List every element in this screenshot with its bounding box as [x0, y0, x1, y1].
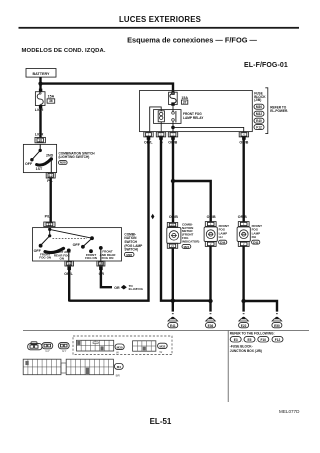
relay coil to G pin — [160, 122, 162, 132]
svg-text:15A: 15A — [48, 95, 55, 99]
svg-text:GY: GY — [62, 349, 66, 353]
svg-text:(LIGHTING SWITCH): (LIGHTING SWITCH) — [59, 155, 90, 159]
relay coil feed path — [150, 107, 162, 132]
refer-to list — [230, 332, 283, 353]
svg-text:W: W — [159, 350, 162, 354]
svg-text:L/OR: L/OR — [35, 108, 44, 112]
wire fog lamp LH ground down — [209, 246, 211, 301]
svg-text:M28: M28 — [60, 161, 66, 165]
connector ref ovals fuse block — [254, 104, 264, 109]
node ground junction 2 — [208, 299, 212, 303]
svg-text:OR/B: OR/B — [207, 215, 216, 219]
direction arrow on OR/L wire — [151, 214, 154, 219]
connector E41 face view — [28, 342, 42, 350]
svg-text:INDICATOR): INDICATOR) — [182, 239, 199, 243]
svg-text:14: 14 — [67, 262, 71, 266]
svg-text:FOG ON: FOG ON — [39, 256, 51, 260]
svg-text:12: 12 — [49, 174, 53, 178]
svg-text:E44: E44 — [220, 240, 226, 244]
svg-text:L/OR: L/OR — [35, 132, 44, 136]
wire battery down — [39, 77, 41, 90]
wire OR/B right down — [242, 138, 244, 222]
svg-text:GY: GY — [45, 349, 49, 353]
connector ref M28 oval — [59, 161, 68, 165]
wire battery feed to fuse block — [41, 84, 174, 93]
fuse F1 ref box — [47, 99, 55, 103]
svg-text:M30: M30 — [117, 345, 123, 349]
connector 10 lighting switch top — [35, 137, 45, 142]
svg-text:OFF: OFF — [73, 243, 81, 247]
svg-text:FOG ON: FOG ON — [102, 256, 114, 260]
connector ref E44 oval — [219, 240, 227, 244]
svg-text:OR/B: OR/B — [169, 215, 178, 219]
arrow to EL-R/FOG — [121, 285, 127, 290]
svg-text:1ST: 1ST — [36, 167, 43, 171]
svg-text:10: 10 — [38, 139, 42, 143]
node relay output junction — [171, 126, 175, 130]
battery B1 — [26, 69, 56, 78]
wire OR/L down — [68, 268, 70, 302]
lighting switch contact arc — [37, 160, 51, 166]
connector 12 lighting switch bottom — [46, 173, 55, 178]
svg-text:EL-POWER.: EL-POWER. — [270, 109, 288, 113]
node contact front fog on — [89, 249, 93, 253]
svg-text:OR: OR — [114, 286, 120, 290]
svg-text:,: , — [270, 339, 271, 343]
node OR/B branch — [171, 179, 175, 183]
svg-text:36: 36 — [49, 99, 53, 103]
ground stub 3 — [242, 301, 244, 312]
bracket refer to el-power — [265, 88, 268, 134]
svg-text:M30: M30 — [256, 105, 262, 109]
ground symbol E41 — [168, 313, 178, 328]
svg-text:E41: E41 — [170, 324, 176, 328]
connector M4 long grid face view row2 — [23, 359, 123, 377]
svg-text:37: 37 — [183, 100, 187, 104]
wire OR/B down — [172, 138, 174, 223]
ground symbol E22 — [239, 313, 249, 328]
svg-text:M32: M32 — [256, 112, 262, 116]
fuse F2 15A — [171, 91, 174, 94]
feed line to right pivot — [50, 229, 92, 238]
connector M32 grid face view — [133, 341, 168, 354]
connector ref M24 oval — [182, 244, 191, 248]
node ground junction 1 — [171, 299, 175, 303]
bottom separator line — [23, 329, 309, 331]
svg-text:(J/B): (J/B) — [254, 98, 261, 102]
wire meter ground down — [172, 248, 174, 300]
svg-text:E50: E50 — [274, 324, 280, 328]
svg-text:MODELOS DE COND. IZQDA.: MODELOS DE COND. IZQDA. — [22, 48, 106, 54]
fog switch contact arc 1 — [45, 248, 64, 252]
svg-text:LH: LH — [219, 235, 223, 239]
svg-text:F12: F12 — [256, 126, 262, 130]
pin OR/B right fuse block — [239, 132, 248, 137]
combination meter U1 (front fog indicator) — [167, 228, 181, 244]
wiper arm 1 — [41, 236, 50, 246]
relay contact terminals — [172, 110, 174, 112]
section divider vertical — [227, 331, 229, 402]
svg-text:OR/B: OR/B — [238, 215, 247, 219]
svg-text:E36: E36 — [208, 324, 214, 328]
svg-text:ON: ON — [60, 257, 65, 261]
node arc output — [67, 249, 71, 253]
wire OR/L riser — [69, 138, 148, 301]
svg-text:SWITCH): SWITCH) — [124, 248, 138, 252]
svg-text:M32: M32 — [159, 345, 165, 349]
svg-text:E3: E3 — [234, 338, 238, 342]
lighting switch SW1 box — [23, 144, 56, 172]
ground stub 1 — [172, 301, 174, 312]
svg-text:-FUSE BLOCK-: -FUSE BLOCK- — [230, 344, 253, 348]
node battery junction — [38, 82, 42, 86]
node pivot 2 — [90, 236, 94, 240]
svg-text:JUNCTION BOX (J/B): JUNCTION BOX (J/B) — [230, 349, 262, 353]
fuse F2 ref box — [181, 100, 187, 104]
ground symbol E36 — [206, 313, 216, 328]
connector 1 fog lamp LH top — [205, 222, 216, 227]
wire L/OR down — [39, 107, 41, 139]
svg-text:LAMP RELAY: LAMP RELAY — [183, 116, 204, 120]
front fog lamp RH E2 — [237, 227, 250, 241]
svg-text:E5: E5 — [248, 338, 252, 342]
node fog switch input — [48, 228, 51, 231]
svg-text:EL-R/FOG: EL-R/FOG — [129, 287, 144, 291]
svg-text:EL-F/FOG-01: EL-F/FOG-01 — [244, 62, 288, 69]
header rule — [19, 27, 300, 29]
svg-text:FOG ON: FOG ON — [85, 256, 97, 260]
svg-text:RH: RH — [252, 235, 256, 239]
svg-text:F10: F10 — [261, 338, 267, 342]
node ground junction 3 — [241, 299, 245, 303]
wire fuse to relay contact — [172, 105, 174, 112]
ground stub 2 — [209, 301, 211, 312]
svg-text:MEL077D: MEL077D — [279, 409, 300, 414]
svg-text:E40: E40 — [256, 119, 262, 123]
connector 2 fog lamp LH bottom — [205, 241, 216, 246]
connector ref E45 oval — [252, 240, 260, 244]
wire P/L down — [50, 178, 52, 222]
dashed fuse block group box — [73, 336, 172, 355]
fuse block J/B outline — [140, 91, 253, 132]
connector ref M28 oval — [124, 252, 134, 256]
connector 1 fog lamp RH top — [238, 222, 249, 227]
connector 15 fog switch bottom right — [97, 261, 105, 266]
wire G down — [161, 138, 173, 301]
front fog lamp relay box — [154, 110, 182, 124]
relay coil — [158, 111, 164, 122]
front fog lamp LH E1 — [204, 227, 217, 241]
wire bus to ground 4 — [244, 301, 277, 312]
connector M30 grid face view — [77, 340, 125, 354]
fuse F1 15A — [39, 89, 42, 92]
wiper arm to OFF — [32, 150, 40, 159]
wire branch to front fog lamp LH — [173, 181, 211, 222]
svg-text:LUCES EXTERIORES: LUCES EXTERIORES — [119, 15, 201, 24]
svg-text:EL-51: EL-51 — [150, 417, 172, 426]
svg-text:W: W — [116, 350, 119, 354]
svg-text:M4: M4 — [117, 365, 121, 369]
wire OR to rear fog — [101, 268, 112, 287]
svg-text:13: 13 — [48, 223, 52, 227]
mechanical link dashed — [53, 237, 88, 239]
pin OR/L fuse block — [144, 132, 153, 137]
svg-text:M28: M28 — [126, 253, 132, 257]
svg-text:OFF: OFF — [25, 162, 33, 166]
ground symbol E50 — [272, 313, 282, 328]
wire bus to junction 2 — [173, 300, 211, 302]
svg-text:P/L: P/L — [45, 214, 51, 218]
svg-text:E45: E45 — [253, 240, 259, 244]
connector 2 fog lamp RH bottom — [238, 241, 249, 246]
svg-text:Esquema de conexiones — F/FOG: Esquema de conexiones — F/FOG — — [127, 36, 257, 45]
svg-text:2ND: 2ND — [46, 154, 54, 158]
connector 23 combination meter bottom — [167, 243, 177, 248]
svg-text:BATTERY: BATTERY — [32, 72, 50, 76]
connector E45 face view — [58, 343, 69, 354]
svg-text:REFER TO THE FOLLOWING:: REFER TO THE FOLLOWING: — [230, 332, 275, 336]
svg-text:15: 15 — [99, 262, 103, 266]
connector 13 fog switch top — [44, 222, 55, 227]
svg-text:F12: F12 — [275, 338, 281, 342]
connector E44 face view — [42, 343, 53, 354]
wire fog lamp RH ground down — [242, 246, 244, 301]
svg-text:M24: M24 — [184, 245, 190, 249]
wiper arm 2 — [83, 238, 92, 246]
wire branch to right OR/B pin — [173, 127, 244, 132]
pin G fuse block — [156, 132, 165, 137]
fog lamp switch SW2 box — [33, 228, 122, 261]
svg-text:E22: E22 — [241, 324, 247, 328]
node lighting switch pivot — [39, 149, 42, 152]
connector 22 combination meter top — [167, 223, 177, 227]
connector 14 fog switch bottom left — [65, 261, 74, 266]
pin OR/B fuse block — [168, 132, 177, 137]
node contact front and rear — [99, 246, 103, 250]
